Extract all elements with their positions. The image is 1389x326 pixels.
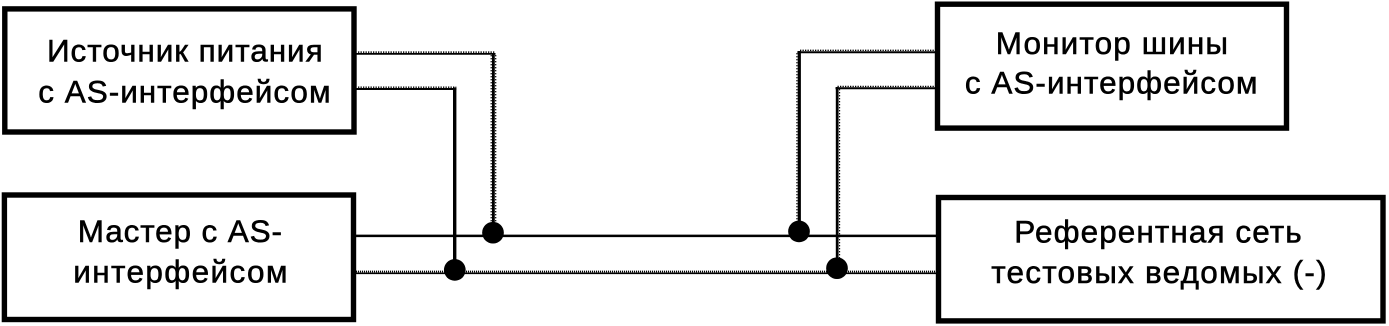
junction dot: lower bus / bus monitor lead [826, 257, 848, 279]
svg-text:с AS-интерфейсом: с AS-интерфейсом [965, 65, 1258, 101]
svg-text:Мастер с AS-: Мастер с AS- [78, 213, 282, 249]
wire: upper bus line (solid) [356, 235, 936, 238]
junction dot: lower bus / power supply lead [444, 259, 466, 281]
svg-text:с AS-интерфейсом: с AS-интерфейсом [38, 74, 330, 110]
junction dot: upper bus / bus monitor lead [788, 221, 810, 243]
svg-text:Источник питания: Источник питания [47, 33, 323, 69]
block: bus monitor with AS-interface [938, 4, 1287, 128]
svg-text:интерфейсом: интерфейсом [73, 253, 287, 289]
junction dot: upper bus / power supply lead [482, 222, 504, 244]
wire: bus monitor lower lead (to lower bus) [836, 86, 937, 264]
svg-text:Референтная сеть: Референтная сеть [1014, 214, 1301, 250]
wire: bus monitor upper lead (solid, to upper bus) [797, 50, 936, 228]
wire: lower bus line (stippled) [356, 272, 936, 274]
block: power supply with AS-interface [5, 9, 354, 132]
wire: power supply lower lead (solid, to lower bus) [357, 87, 457, 266]
block: master with AS-interface [4, 195, 353, 320]
svg-text:тестовых ведомых (-): тестовых ведомых (-) [991, 254, 1326, 290]
svg-text:Монитор шины: Монитор шины [996, 25, 1228, 61]
wire: power supply upper lead (stippled, to upper bus) [357, 52, 496, 229]
block: reference network of test slaves [939, 198, 1384, 321]
